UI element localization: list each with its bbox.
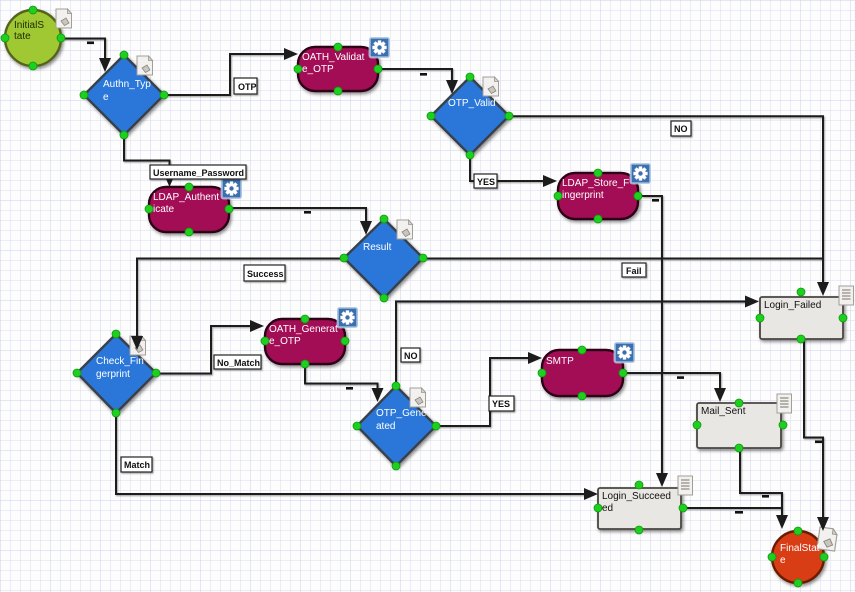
- svg-text:ated: ated: [376, 421, 395, 432]
- svg-text:Success: Success: [247, 269, 284, 279]
- svg-text:e_OTP: e_OTP: [302, 64, 334, 75]
- svg-text:SMTP: SMTP: [546, 356, 574, 367]
- svg-text:Mail_Sent: Mail_Sent: [701, 406, 746, 417]
- svg-text:ingerprint: ingerprint: [562, 190, 604, 201]
- svg-text:Username_Password: Username_Password: [153, 168, 244, 178]
- svg-text:InitialS: InitialS: [14, 20, 44, 31]
- svg-text:No_Match: No_Match: [217, 358, 260, 368]
- svg-text:OATH_Generat: OATH_Generat: [269, 324, 338, 335]
- svg-text:e: e: [780, 555, 786, 566]
- svg-text:Login_Succeed: Login_Succeed: [602, 491, 671, 502]
- svg-text:e: e: [103, 92, 109, 103]
- svg-text:Result: Result: [363, 242, 392, 253]
- svg-text:OATH_Validat: OATH_Validat: [302, 52, 365, 63]
- svg-text:OTP_Gene: OTP_Gene: [376, 408, 427, 419]
- svg-text:OTP_Valid: OTP_Valid: [448, 98, 496, 109]
- svg-text:Match: Match: [124, 460, 150, 470]
- svg-text:gerprint: gerprint: [96, 369, 130, 380]
- svg-text:e_OTP: e_OTP: [269, 336, 301, 347]
- svg-text:LDAP_Store_F: LDAP_Store_F: [562, 178, 629, 189]
- svg-text:ed: ed: [602, 503, 613, 514]
- svg-text:icate: icate: [153, 204, 175, 215]
- svg-text:Check_Fin: Check_Fin: [96, 356, 144, 367]
- svg-text:OTP: OTP: [238, 82, 257, 92]
- svg-text:NO: NO: [674, 124, 688, 134]
- svg-text:NO: NO: [404, 351, 418, 361]
- svg-text:Fail: Fail: [626, 266, 642, 276]
- svg-text:LDAP_Authent: LDAP_Authent: [153, 192, 219, 203]
- svg-text:tate: tate: [14, 31, 31, 42]
- svg-text:Authn_Typ: Authn_Typ: [103, 79, 151, 90]
- svg-text:YES: YES: [492, 399, 510, 409]
- svg-text:YES: YES: [477, 177, 495, 187]
- svg-text:FinalStat: FinalStat: [780, 543, 820, 554]
- svg-text:Login_Failed: Login_Failed: [764, 300, 821, 311]
